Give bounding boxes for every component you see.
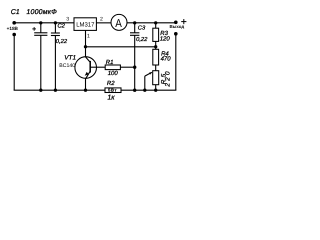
node: + output terminal	[174, 21, 178, 25]
resistor R4	[153, 47, 159, 71]
wire bottom rail right segment	[121, 89, 176, 91]
svg-text:0,22: 0,22	[136, 36, 148, 43]
node: ADJ junction	[84, 45, 87, 48]
wire: R5 wiper to bottom rail	[145, 72, 152, 90]
wire: LM317 pin 1 down to transistor collector	[85, 30, 87, 57]
output plus sign	[181, 19, 186, 24]
svg-text:+18В: +18В	[7, 26, 19, 31]
svg-text:2: 2	[100, 16, 103, 22]
capacitor C1	[34, 23, 47, 90]
svg-text:Выход: Выход	[170, 24, 185, 29]
node: wiper bottom junction	[143, 89, 146, 92]
svg-text:C3: C3	[138, 25, 146, 32]
wire: input minus down to bottom rail	[13, 35, 15, 91]
ammeter A	[111, 14, 127, 30]
resistor R1	[105, 65, 135, 70]
node: C3 top junction	[133, 21, 136, 24]
svg-text:0,22: 0,22	[56, 38, 68, 45]
node: C1 top junction	[39, 21, 42, 24]
VT1 base bar	[89, 61, 91, 73]
VT1 base lead	[90, 66, 105, 68]
wire: emitter to bottom rail	[85, 79, 87, 91]
node: C3 line bottom junction	[133, 89, 136, 92]
svg-text:1к: 1к	[107, 94, 115, 101]
svg-text:1: 1	[87, 33, 90, 39]
svg-text:220: 220	[165, 69, 172, 88]
node: - input terminal	[12, 33, 16, 37]
node: C2 bottom junction	[54, 89, 57, 92]
VT1 emitter arrowhead	[85, 72, 89, 76]
wire: ADJ line to R3/R4 junction	[86, 46, 156, 48]
resistor R2 (in bottom rail)	[105, 88, 121, 93]
capacitor C2	[51, 23, 60, 90]
svg-text:1000мкФ: 1000мкФ	[26, 9, 57, 16]
capacitor C3	[130, 23, 139, 90]
node: + input terminal	[12, 21, 16, 25]
svg-text:5Вт: 5Вт	[108, 88, 117, 93]
node: R3 top junction	[154, 21, 157, 24]
transistor VT1	[75, 57, 97, 79]
wire top rail: +input to LM317 pin 3	[14, 22, 74, 24]
trimmer R5	[153, 71, 159, 91]
regulator U1 LM317	[74, 18, 96, 31]
node: R3/R4 junction	[154, 45, 157, 48]
wire: LM317 pin 2 to ammeter	[96, 22, 111, 24]
svg-text:R2: R2	[107, 80, 115, 87]
svg-text:120: 120	[160, 35, 171, 42]
svg-text:100: 100	[108, 70, 119, 77]
VT1 collector diagonal	[86, 57, 91, 62]
svg-text:BC140: BC140	[59, 63, 75, 69]
svg-text:3: 3	[66, 16, 69, 22]
svg-text:VT1: VT1	[64, 54, 76, 61]
svg-text:R1: R1	[106, 59, 114, 66]
svg-text:C2: C2	[58, 22, 66, 29]
node: C1 bottom junction	[39, 89, 42, 92]
svg-text:A: A	[115, 18, 122, 30]
VT1 emitter diagonal	[86, 71, 91, 79]
svg-text:LM317: LM317	[76, 21, 95, 28]
node: - output terminal	[174, 32, 178, 36]
svg-text:470: 470	[161, 56, 172, 63]
wire bottom rail left segment	[14, 89, 105, 91]
node: R5 bottom junction	[154, 89, 157, 92]
wire: output minus down to bottom rail	[175, 34, 177, 90]
resistor R3	[153, 23, 159, 47]
wire: ammeter to + output	[127, 22, 176, 24]
svg-text:C1: C1	[11, 9, 20, 16]
R5 wiper arrowhead	[149, 72, 152, 75]
node: C2 top junction	[54, 21, 57, 24]
node: emitter bottom junction	[84, 89, 87, 92]
C1 polarity plus sign	[32, 27, 36, 31]
node: R1 right junction on C3 ground line	[133, 66, 136, 69]
